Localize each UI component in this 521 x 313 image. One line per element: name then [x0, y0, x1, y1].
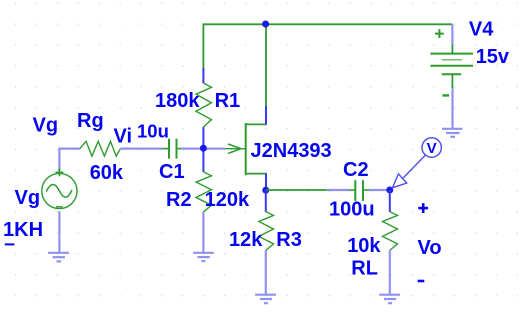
- svg-text:J2N4393: J2N4393: [251, 140, 332, 162]
- wire RL to ground: [389, 250, 391, 294]
- source plus: [55, 168, 63, 176]
- svg-text:10k: 10k: [347, 235, 381, 257]
- pin R1 top: [202, 67, 204, 83]
- wire node to RL: [389, 190, 391, 212]
- ground (R3): [255, 295, 276, 304]
- source minus: [56, 206, 63, 208]
- wire R3 to ground: [265, 250, 267, 294]
- resistor R3: [259, 212, 274, 251]
- node top junction: [262, 21, 269, 28]
- label output plus: [418, 203, 428, 213]
- pin drain: [265, 106, 267, 124]
- source sine: [46, 184, 72, 197]
- probe arrowhead: [393, 174, 407, 188]
- source lead: [246, 173, 267, 175]
- resistor R1: [196, 83, 212, 127]
- svg-text:Vg: Vg: [33, 115, 59, 137]
- label output minus: [418, 280, 425, 283]
- svg-text:C1: C1: [159, 161, 185, 183]
- svg-text:180k: 180k: [155, 90, 200, 112]
- transistor J1 J2N4393 gate lead: [225, 148, 246, 150]
- ground (R2): [193, 253, 214, 261]
- source Vg circle: [42, 173, 77, 208]
- capacitor C2: [350, 180, 370, 201]
- node gate: [200, 145, 207, 152]
- resistor R2: [196, 172, 212, 212]
- label dash under 1KH: [5, 243, 15, 245]
- svg-text:15v: 15v: [476, 46, 510, 68]
- svg-text:Vg: Vg: [15, 187, 41, 209]
- wire Rg to C1: [120, 148, 162, 150]
- wire R2 to ground: [202, 212, 204, 253]
- wire junction drop to drain: [265, 24, 267, 106]
- ground (RL): [379, 295, 400, 304]
- svg-text:R1: R1: [215, 90, 241, 112]
- svg-text:Rg: Rg: [77, 110, 104, 132]
- svg-text:Vo: Vo: [418, 237, 442, 259]
- wire node to R3: [265, 190, 267, 212]
- battery plus: [435, 29, 444, 38]
- probe V circle: [422, 138, 441, 157]
- capacitor C1: [162, 139, 181, 159]
- svg-text:V: V: [427, 140, 437, 157]
- resistor Rg: [80, 141, 121, 156]
- gate arrow: [228, 144, 241, 153]
- svg-text:100u: 100u: [329, 198, 375, 220]
- wire source to C2: [266, 189, 327, 191]
- wire input rail Vg corner: [59, 149, 79, 171]
- wire left drop to R1: [202, 23, 204, 67]
- ground (V4): [442, 129, 462, 137]
- transistor bar: [245, 123, 247, 175]
- pin R1 bottom / R2 top wire: [202, 127, 204, 172]
- wire top rail: [203, 23, 452, 25]
- svg-text:RL: RL: [351, 258, 378, 280]
- wire blue segment before C2: [327, 189, 349, 191]
- wire C2 to out node: [369, 189, 390, 191]
- wire C1 to gate node to gate lead: [181, 148, 225, 150]
- wire Vg to ground: [58, 211, 60, 252]
- probe shaft: [403, 155, 426, 178]
- drain lead: [246, 123, 267, 125]
- svg-text:10u: 10u: [137, 120, 169, 141]
- wire V4 drop: [451, 24, 453, 45]
- svg-text:V4: V4: [469, 19, 494, 41]
- battery minus: [442, 94, 449, 96]
- resistor RL: [383, 212, 398, 251]
- svg-text:R2: R2: [166, 189, 192, 211]
- svg-text:60k: 60k: [90, 162, 124, 184]
- node source: [262, 187, 269, 194]
- svg-text:C2: C2: [343, 159, 369, 181]
- node output: [386, 187, 393, 194]
- svg-text:120k: 120k: [205, 189, 250, 211]
- wire battery to ground: [451, 88, 453, 128]
- ground (Vg): [48, 253, 69, 262]
- svg-text:Vi: Vi: [114, 125, 133, 147]
- svg-text:R3: R3: [276, 229, 302, 251]
- battery V4: [430, 45, 473, 88]
- pin source: [265, 174, 267, 190]
- svg-text:1KH: 1KH: [3, 219, 43, 241]
- svg-text:12k: 12k: [229, 229, 263, 251]
